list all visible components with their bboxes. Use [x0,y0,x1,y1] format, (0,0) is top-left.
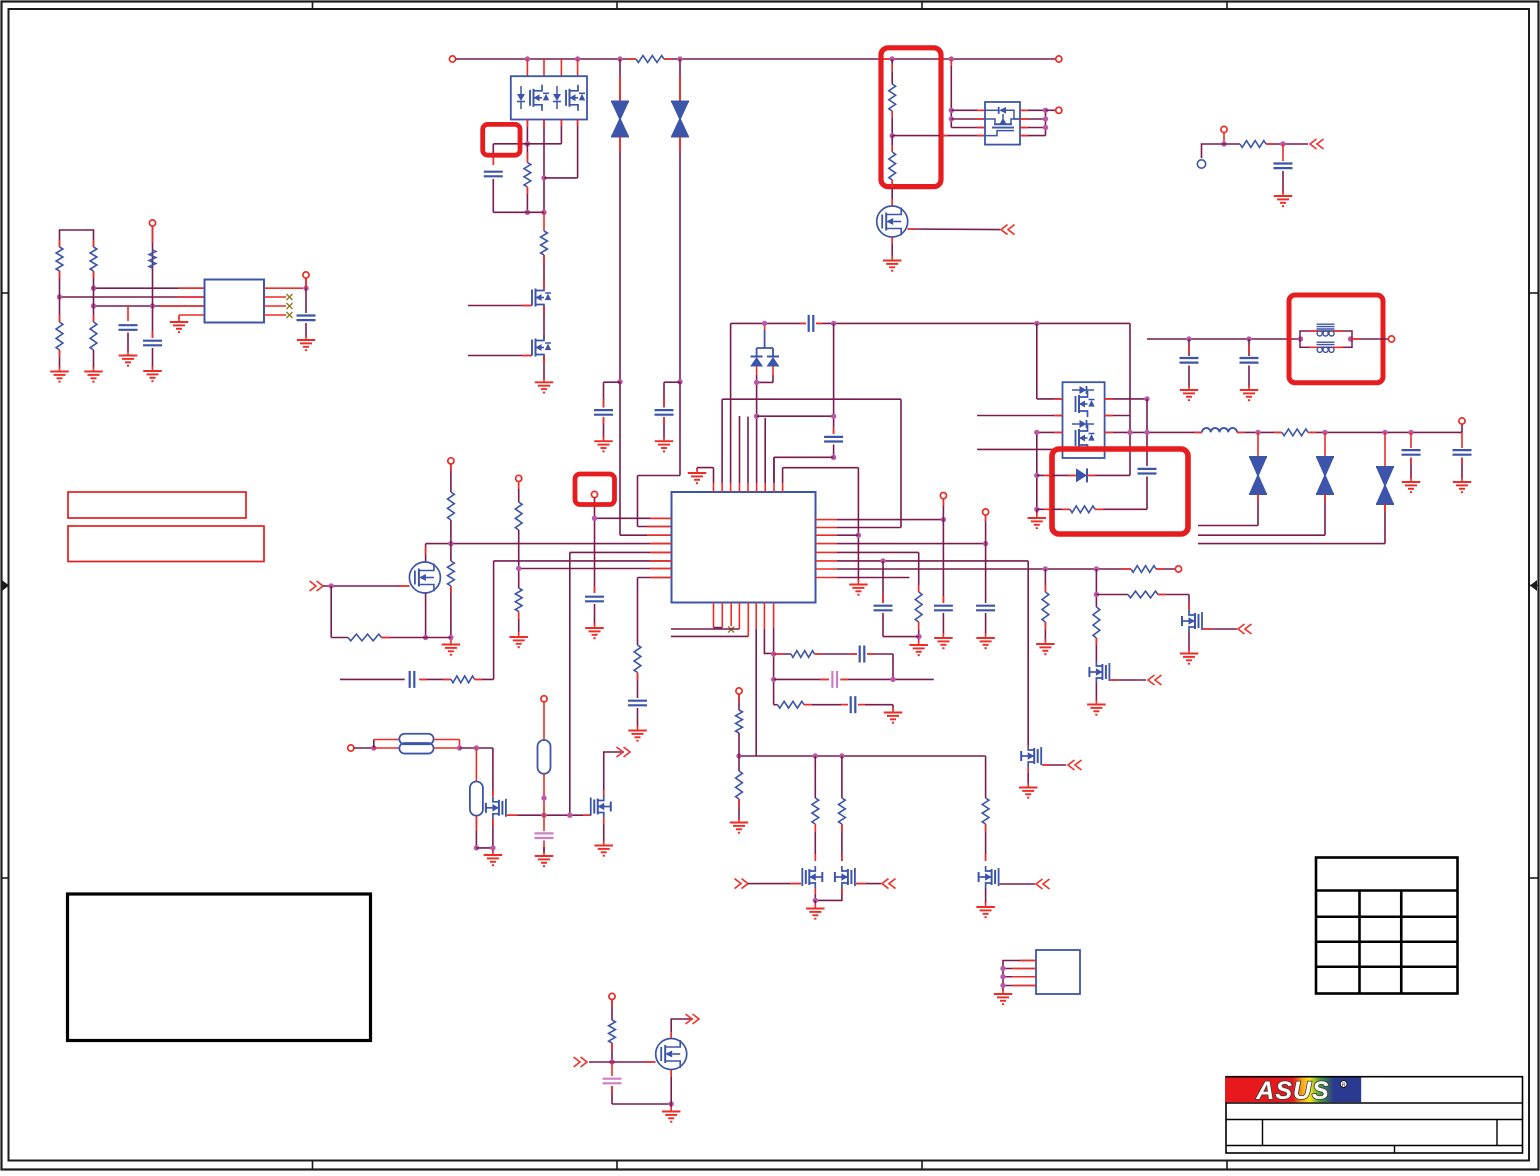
svg-text:ASUS: ASUS [1255,1077,1329,1105]
svg-text:R: R [1342,1082,1346,1088]
